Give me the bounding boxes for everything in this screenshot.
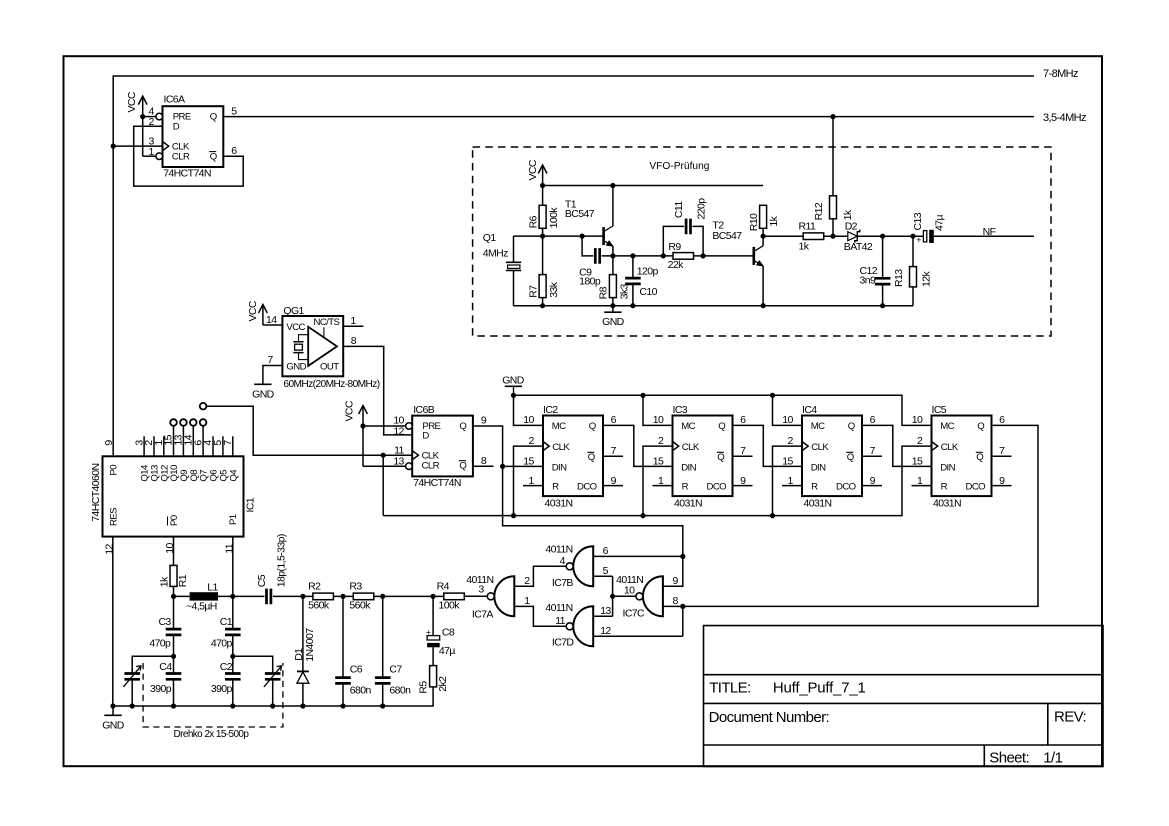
svg-text:13: 13 (393, 455, 404, 467)
svg-text:680n: 680n (350, 685, 372, 697)
inductor L1 ~4,5uH (190, 592, 218, 600)
svg-text:Q: Q (847, 452, 854, 463)
svg-text:R: R (941, 481, 948, 492)
svg-text:Q: Q (976, 452, 983, 463)
svg-text:4MHz: 4MHz (483, 247, 508, 259)
svg-text:Q1: Q1 (483, 232, 497, 244)
wire T1 collector (612, 186, 614, 227)
svg-text:C11: C11 (673, 201, 685, 218)
power VCC (IC6B) (344, 400, 368, 426)
junction C6 tap (340, 594, 345, 599)
wire right trimmer to ground (272, 679, 274, 706)
svg-text:6: 6 (611, 414, 617, 426)
svg-text:47µ: 47µ (439, 645, 455, 657)
variable capacitor (Drehko right half) (264, 666, 282, 687)
svg-text:4: 4 (560, 555, 566, 567)
svg-text:~4,5µH: ~4,5µH (186, 600, 217, 612)
overline Qbar (IC6A) (209, 151, 216, 153)
svg-text:Q: Q (589, 421, 596, 432)
svg-text:R9: R9 (668, 241, 681, 253)
wire T2 collector (762, 228, 764, 245)
svg-text:R2: R2 (308, 581, 321, 593)
svg-text:R7: R7 (527, 285, 539, 298)
diode D1 1N4007 (297, 671, 309, 683)
junction D1 tap (300, 594, 305, 599)
wire ground rail (113, 687, 433, 706)
svg-text:DCO: DCO (966, 481, 986, 492)
junction DIN tap (500, 464, 505, 469)
svg-text:390p: 390p (150, 683, 172, 695)
svg-text:2: 2 (787, 435, 793, 447)
svg-text:390p: 390p (211, 683, 233, 695)
svg-text:+: + (916, 234, 921, 244)
svg-text:IC7A: IC7A (472, 609, 494, 621)
svg-text:VCC: VCC (286, 322, 305, 333)
junction IC6A CLK / P0 net (111, 144, 116, 149)
svg-text:7: 7 (611, 445, 617, 457)
junction C10 tap (630, 253, 635, 258)
svg-text:VCC: VCC (344, 400, 356, 421)
IC2 clock input triangle (543, 442, 549, 451)
svg-text:15: 15 (653, 456, 664, 468)
svg-text:9: 9 (673, 575, 679, 587)
svg-text:R5: R5 (417, 681, 429, 694)
wire C4 to ground (173, 679, 175, 706)
svg-text:GND: GND (252, 388, 275, 400)
svg-text:IC7C: IC7C (623, 607, 646, 619)
svg-text:C8: C8 (442, 627, 455, 639)
svg-text:DCO: DCO (707, 481, 727, 492)
svg-text:C5: C5 (256, 574, 268, 587)
svg-text:R6: R6 (527, 215, 539, 228)
transistor T2 BC547 (754, 246, 763, 266)
IC3 clock input triangle (673, 442, 679, 451)
pin 13 CLR bubble (IC6B) (406, 463, 413, 470)
svg-text:DCO: DCO (577, 481, 597, 492)
wire QG1 OUT pin 8 to IC6B D (343, 346, 412, 435)
svg-text:60MHz(20MHz-80MHz): 60MHz(20MHz-80MHz) (283, 379, 379, 390)
junction T1 collector rail (610, 183, 615, 188)
wire C6 to ground (342, 683, 344, 706)
IC5 clock input triangle (932, 442, 938, 451)
wire clock rail (383, 446, 931, 515)
svg-text:220p: 220p (696, 198, 708, 220)
svg-text:14: 14 (266, 314, 277, 326)
wire IC2 Qbar pin 7 stub (603, 455, 623, 457)
svg-text:IC6A: IC6A (164, 93, 186, 105)
overline Qbar (IC5) (976, 451, 983, 453)
svg-text:R1: R1 (177, 574, 189, 587)
svg-text:10: 10 (782, 414, 793, 426)
wire NF output (934, 235, 1034, 237)
junction C8 tap (431, 594, 436, 599)
svg-text:9: 9 (481, 415, 487, 427)
dashed box VFO-Pruefung (473, 147, 1051, 336)
resistor R5 2k2 (430, 666, 437, 687)
svg-text:R: R (811, 481, 818, 492)
wire D2 to C13 (857, 235, 923, 237)
junction VFO ground at C12 (880, 303, 885, 308)
svg-text:CLK: CLK (682, 442, 700, 453)
junction clock rail IC3 (640, 513, 645, 518)
resistor R4 100k (444, 593, 465, 600)
svg-text:MC: MC (811, 421, 825, 432)
connector pad Q8 (190, 419, 197, 426)
svg-text:4031N: 4031N (674, 498, 702, 510)
svg-text:Huff_Puff_7_1: Huff_Puff_7_1 (773, 679, 866, 696)
wire IC1 Q4 pin 7 stub (232, 436, 234, 456)
svg-text:6: 6 (603, 545, 609, 557)
resistor R3 560k (353, 593, 374, 600)
wire C1 to C2 (232, 635, 234, 674)
shift register IC3 4031N (673, 416, 733, 497)
capacitor C1 470p (225, 629, 241, 635)
svg-text:R10: R10 (748, 213, 760, 231)
junction C12 top (880, 234, 885, 239)
wire IC6A CLK pin 3 (113, 145, 162, 147)
svg-text:IC6B: IC6B (413, 404, 435, 416)
junction ground rail at C7 (380, 703, 385, 708)
junction clock rail IC4 (770, 513, 775, 518)
svg-text:D2: D2 (845, 220, 858, 232)
net A: IC6B Q pin9 to IC7B.6/IC7C.9 (473, 426, 683, 586)
svg-text:Q: Q (588, 452, 595, 463)
svg-text:22k: 22k (668, 259, 684, 271)
wire IC4 Q to IC5 DIN (862, 425, 932, 466)
wire node to L1 (174, 595, 190, 597)
resistor R1 1k (170, 565, 177, 586)
wire IC7D pin 12 (593, 635, 683, 637)
capacitor C4 390p (166, 674, 182, 680)
svg-text:6: 6 (999, 414, 1005, 426)
junction C9 tap (580, 234, 585, 239)
wire drop to IC7D pin 12 (682, 606, 684, 636)
wire node to C1 (232, 596, 234, 629)
junction VCC/PRE (140, 114, 145, 119)
svg-text:R: R (682, 481, 689, 492)
border frame (64, 56, 1103, 766)
svg-text:CLK: CLK (552, 442, 570, 453)
svg-text:100k: 100k (548, 207, 560, 229)
svg-text:Q: Q (459, 421, 466, 432)
wire C12 branch (882, 236, 884, 306)
svg-text:Q: Q (848, 421, 855, 432)
svg-text:8: 8 (481, 455, 487, 467)
svg-text:Q4: Q4 (228, 469, 239, 482)
wire IC1 Q9 pin 13 stub (182, 426, 184, 457)
svg-text:2k2: 2k2 (437, 676, 449, 692)
junction ground rail at C6 (340, 703, 345, 708)
junction C7 tap (380, 594, 385, 599)
svg-text:BC547: BC547 (712, 230, 742, 242)
svg-text:DIN: DIN (811, 462, 826, 473)
wire L1 to C5 (218, 595, 264, 597)
svg-text:10: 10 (164, 542, 176, 553)
svg-text:NC/TS: NC/TS (314, 317, 340, 328)
wire drop to clock rail (382, 455, 384, 515)
wire IC1 Q14 pin 3 stub (143, 436, 145, 456)
wire IC7C.10 feedback vertical (612, 576, 614, 616)
svg-text:8: 8 (351, 335, 357, 347)
svg-text:9: 9 (870, 475, 876, 487)
resistor R12 1k (830, 196, 837, 219)
capacitor C2 390p (225, 674, 241, 680)
wire IC3 DCO pin 9 stub (733, 485, 753, 487)
svg-text:10: 10 (523, 414, 534, 426)
svg-text:680n: 680n (389, 685, 411, 697)
svg-text:C4: C4 (159, 661, 172, 673)
svg-text:RES: RES (109, 508, 120, 526)
svg-text:MC: MC (552, 421, 566, 432)
svg-text:12: 12 (600, 625, 611, 637)
svg-text:IC5: IC5 (932, 404, 947, 416)
wire to IC2 DIN pin 15 (503, 465, 543, 467)
wire GND stub (VFO) (612, 306, 614, 313)
junction MC rail IC2 (511, 393, 516, 398)
wire R13 bottom (912, 287, 914, 306)
wire node to D1 (302, 596, 304, 671)
capacitor C7 680n (375, 678, 391, 684)
svg-text:CLK: CLK (941, 442, 959, 453)
wire IC7B pin 6 (593, 555, 683, 557)
svg-text:9: 9 (999, 475, 1005, 487)
wire emitter/R9 rail (602, 255, 754, 257)
wire C3 to C4 (173, 635, 175, 674)
svg-text:7: 7 (222, 440, 234, 446)
junction C3/C4/trimmer (171, 654, 176, 659)
svg-text:1: 1 (658, 475, 664, 487)
svg-text:1k: 1k (799, 241, 810, 253)
svg-text:+: + (426, 627, 431, 637)
junction R13/C13 (910, 234, 915, 239)
svg-text:VCC: VCC (247, 300, 259, 321)
svg-text:DIN: DIN (940, 462, 955, 473)
svg-text:2: 2 (528, 435, 534, 447)
svg-text:1: 1 (524, 595, 530, 607)
overline Qbar (IC6B) (459, 460, 466, 462)
power VCC (QG1) (247, 300, 267, 325)
junction IC7C output (610, 594, 615, 599)
connector pad jumper to IC6B CLK (200, 403, 207, 410)
svg-text:BC547: BC547 (565, 208, 595, 220)
svg-text:7: 7 (740, 445, 746, 457)
svg-text:Q: Q (718, 421, 725, 432)
svg-text:QG1: QG1 (283, 305, 304, 317)
svg-text:Q: Q (459, 461, 466, 472)
wire VCC rail (VFO) (543, 185, 764, 187)
connector pad Q9 (180, 419, 187, 426)
svg-text:R11: R11 (799, 220, 816, 232)
wire to CLR bubble (IC6B) (363, 465, 406, 467)
svg-text:33k: 33k (548, 281, 560, 297)
svg-text:15: 15 (523, 456, 534, 468)
wire C2 to ground (232, 679, 234, 706)
capacitor C3 470p (166, 629, 182, 635)
wire QG1 NC/TS pin 1 stub (343, 325, 363, 327)
wire CLK drop IC4 (773, 446, 803, 515)
svg-text:C7: C7 (389, 663, 402, 675)
wire MC drop IC3 (643, 395, 673, 425)
wire to PRE bubble (IC6B) (363, 425, 406, 427)
wire IC4 Qbar pin 7 stub (862, 455, 882, 457)
pin 4 PRE bubble (156, 113, 163, 120)
wire IC3 Qbar pin 7 stub (733, 455, 753, 457)
svg-text:C3: C3 (158, 616, 171, 628)
svg-text:Sheet:: Sheet: (989, 749, 1029, 766)
svg-text:2: 2 (149, 116, 155, 128)
svg-text:6: 6 (231, 145, 237, 157)
svg-text:VCC: VCC (126, 91, 138, 112)
variable capacitor (Drehko left half) (123, 666, 141, 687)
svg-text:2: 2 (524, 575, 530, 587)
wire IC2 DCO pin 9 stub (603, 485, 623, 487)
svg-text:12: 12 (103, 543, 115, 554)
wire CLK drop IC2 (514, 446, 544, 515)
svg-text:REV:: REV: (1054, 708, 1086, 725)
svg-text:11: 11 (555, 615, 565, 627)
junction clock rail IC2 (511, 513, 516, 518)
Drehko dashed outline (143, 663, 283, 727)
diode D2 BAT42 (schottky) (848, 230, 860, 243)
svg-text:GND: GND (602, 316, 625, 328)
capacitor C10 120p (625, 278, 641, 284)
svg-text:C13: C13 (912, 212, 924, 230)
svg-text:1: 1 (350, 315, 356, 327)
svg-text:C2: C2 (220, 661, 233, 673)
wire down to R12 (832, 117, 834, 196)
capacitor C12 3n9 (875, 278, 891, 284)
svg-text:R4: R4 (437, 581, 450, 593)
junction ground rail at right trimmer (270, 703, 275, 708)
svg-text:12: 12 (393, 425, 404, 437)
wire IC6A Q pin5 net 3,5-4MHz (223, 116, 1034, 118)
svg-text:5: 5 (603, 565, 609, 577)
svg-text:2: 2 (658, 435, 664, 447)
power VCC (IC6A) (126, 91, 147, 116)
wire MC drop IC4 (773, 395, 803, 425)
svg-text:DIN: DIN (552, 462, 567, 473)
svg-text:C10: C10 (639, 286, 657, 298)
svg-text:470p: 470p (211, 638, 233, 650)
svg-text:47µ: 47µ (934, 215, 946, 231)
wire IC1 Q6 pin 4 stub (212, 436, 214, 456)
junction VFO ground at T2 emitter (761, 303, 766, 308)
svg-text:3k3: 3k3 (619, 284, 631, 300)
shift register IC2 4031N (543, 416, 603, 497)
svg-text:IC4: IC4 (802, 404, 817, 416)
crystal Q1 4MHz (506, 262, 521, 270)
svg-text:MC: MC (940, 421, 954, 432)
wire to PRE bubble (143, 116, 156, 118)
connector pad Q7 (200, 419, 207, 426)
junction R6/R7/base (540, 234, 545, 239)
svg-text:120p: 120p (637, 265, 659, 277)
svg-text:1k: 1k (768, 215, 780, 226)
capacitor C5 18p(1,5-33p) (267, 589, 271, 605)
svg-text:CLK: CLK (811, 442, 829, 453)
svg-text:1k: 1k (842, 209, 854, 220)
wire IC1 Q12 pin 1 stub (163, 436, 165, 456)
wire crystal Q1 leads (513, 236, 515, 306)
ground symbol (MC rail) (502, 375, 525, 396)
wire IC3 Q to IC4 DIN (733, 425, 803, 466)
wire IC7B pin 5 (593, 575, 612, 577)
svg-text:1/1: 1/1 (1043, 749, 1062, 766)
svg-text:P0: P0 (169, 515, 180, 526)
wire T2 emitter (762, 266, 764, 306)
svg-text:1k: 1k (159, 576, 171, 587)
svg-text:TITLE:: TITLE: (709, 679, 750, 696)
wire left trimmer to ground (131, 679, 133, 706)
wire collector to R11 (763, 235, 803, 237)
wire QG1 VCC pin 14 (263, 324, 283, 326)
wire IC1 Q13 pin 2 stub (153, 436, 155, 456)
svg-text:R12: R12 (813, 202, 825, 220)
junction MC rail IC4 (770, 393, 775, 398)
svg-text:10: 10 (653, 414, 664, 426)
svg-text:560k: 560k (349, 599, 371, 611)
svg-text:6: 6 (740, 414, 746, 426)
nand gate IC7B 4011N (566, 546, 593, 586)
junction VCC/R6 (540, 183, 545, 188)
svg-text:9: 9 (103, 440, 115, 446)
svg-text:R13: R13 (893, 269, 905, 287)
wire IC6B Qbar pin 8 stub (473, 465, 494, 467)
wire IC2 R pin 1 stub (523, 485, 543, 487)
net B: IC5 Q pin6 to IC7C.8/IC7D.12 (663, 425, 1038, 606)
wire R3 to R4 (374, 595, 444, 597)
pin 10 PRE bubble (IC6B) (406, 423, 413, 430)
svg-text:OUT: OUT (320, 362, 339, 373)
svg-text:3n9: 3n9 (860, 274, 876, 286)
svg-text:GND: GND (102, 719, 125, 731)
wire GND stub (tank) (112, 706, 114, 715)
wire IC1 Q10 pin 15 stub (173, 426, 175, 457)
wire C8 to R5 (432, 647, 434, 665)
junction VFO ground at R8 (610, 303, 615, 308)
wire IC1 P0bar pin10 through R1 (173, 537, 175, 597)
QG1 internal buffer triangle (308, 327, 337, 366)
svg-text:12k: 12k (920, 271, 932, 287)
svg-text:Q: Q (210, 112, 217, 123)
junction R12 tap (830, 114, 835, 119)
svg-text:Q: Q (210, 152, 217, 163)
svg-text:100k: 100k (439, 599, 461, 611)
ground (QG1) (252, 384, 275, 400)
oscillator QG1 box (282, 316, 343, 376)
svg-text:74HCT74N: 74HCT74N (413, 477, 461, 489)
wire IC5 R pin 1 stub (912, 485, 932, 487)
junction CLK pin 11 / clock rail (381, 453, 386, 458)
wire R13 top (912, 236, 914, 266)
wire QG1 GND pin 7 (263, 366, 283, 385)
svg-text:10: 10 (624, 585, 635, 597)
svg-text:9: 9 (740, 475, 746, 487)
wire R2 to R3 (333, 595, 353, 597)
junction P1/L1/C5 (230, 594, 235, 599)
wire to CLR bubble (143, 155, 156, 157)
svg-text:15: 15 (912, 456, 923, 468)
resistor R7 33k (539, 275, 546, 298)
svg-text:3,5-4MHz: 3,5-4MHz (1043, 112, 1086, 124)
svg-text:1: 1 (149, 146, 155, 158)
svg-text:Drehko 2x 15-500p: Drehko 2x 15-500p (174, 729, 250, 740)
wire R12 to line (832, 219, 834, 236)
svg-text:Q: Q (977, 421, 984, 432)
wire CLK drop IC3 (643, 446, 673, 515)
wire IC1 Q8 pin 14 stub (192, 426, 194, 457)
resistor R6 100k (539, 205, 546, 228)
